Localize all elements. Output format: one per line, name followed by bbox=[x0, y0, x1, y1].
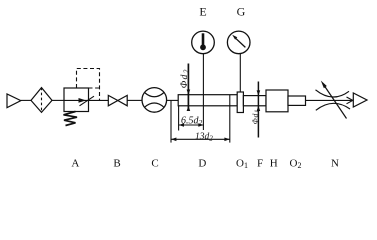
regulator A adjustment slash bbox=[80, 96, 95, 106]
svg-text:O2: O2 bbox=[290, 158, 302, 171]
svg-text:Φd1: Φd1 bbox=[250, 109, 260, 124]
throttle valve N adjustment arrow bbox=[325, 86, 347, 119]
regulator A pilot dashed line bbox=[77, 69, 100, 101]
wire bbox=[89, 99, 109, 101]
svg-text:Φd2: Φd2 bbox=[179, 68, 191, 88]
pipe F (throat) bbox=[243, 96, 266, 106]
svg-text:O1: O1 bbox=[236, 158, 248, 171]
svg-text:C: C bbox=[151, 158, 158, 170]
pipe D bbox=[178, 95, 237, 106]
dimension Phi-d1 line and arrows bbox=[257, 82, 261, 138]
regulator A body bbox=[64, 88, 89, 112]
svg-text:G: G bbox=[237, 4, 246, 18]
svg-text:B: B bbox=[113, 158, 120, 170]
svg-text:N: N bbox=[331, 158, 339, 170]
regulator A flow line bbox=[64, 99, 89, 101]
regulator A spring bbox=[64, 112, 78, 126]
wire bbox=[52, 99, 64, 101]
svg-text:6.5d2: 6.5d2 bbox=[181, 115, 203, 127]
svg-text:13d2: 13d2 bbox=[195, 132, 213, 143]
pressure gauge G bbox=[227, 31, 250, 54]
thermometer E bbox=[192, 31, 215, 54]
thermometer stem (E) / 6.5d2 right extension bbox=[202, 54, 204, 130]
dimension Phi-d2 line and arrows bbox=[187, 64, 191, 112]
wire bbox=[167, 99, 179, 101]
flowmeter C bbox=[142, 88, 167, 113]
reducer O2 bbox=[288, 96, 306, 105]
flange O1 bbox=[237, 92, 243, 113]
wire bbox=[21, 99, 31, 101]
dimension 6.5d2 bbox=[179, 106, 204, 131]
svg-text:D: D bbox=[198, 158, 206, 170]
filter (diamond with dashed line) bbox=[31, 88, 52, 113]
wire bbox=[127, 99, 142, 101]
svg-text:E: E bbox=[199, 4, 206, 18]
valve B (bowtie) bbox=[108, 95, 127, 105]
throttle valve N arcs bbox=[316, 90, 351, 111]
outlet triangle bbox=[353, 93, 367, 107]
svg-text:F: F bbox=[257, 158, 263, 170]
inlet arrow (source triangle) bbox=[7, 94, 21, 108]
wire to outlet bbox=[306, 99, 353, 101]
regulator A flow arrowhead bbox=[79, 98, 87, 103]
gauge G stem bbox=[239, 54, 241, 92]
outlet barb arrowhead bbox=[347, 97, 353, 104]
svg-text:A: A bbox=[71, 158, 79, 170]
dimension 13d2 bbox=[171, 95, 230, 143]
box H bbox=[266, 90, 288, 112]
svg-text:H: H bbox=[270, 158, 278, 170]
